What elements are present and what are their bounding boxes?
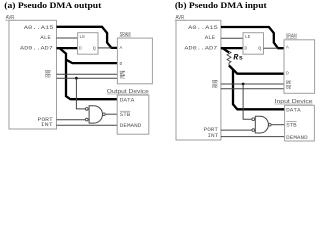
wire RD to SRAM OE (b) — [221, 88, 284, 90]
svg-text:INT: INT — [207, 132, 218, 139]
svg-text:Q: Q — [93, 45, 96, 51]
svg-text:Q: Q — [258, 45, 261, 51]
pin label STB (Input Device, overlined) — [286, 122, 297, 129]
gate U8 output bubble — [269, 123, 272, 126]
svg-text:(a) Pseudo DMA output: (a) Pseudo DMA output — [4, 1, 101, 10]
svg-text:A: A — [286, 45, 289, 51]
svg-text:ALE: ALE — [205, 34, 216, 41]
gate U8 input bubble bottom — [252, 129, 255, 132]
svg-text:DATA: DATA — [120, 97, 135, 104]
wire WR branch to gate input (b) — [243, 84, 252, 119]
junction on WR wire (b) — [242, 83, 245, 86]
svg-text:INT: INT — [41, 121, 54, 128]
pin label WR (U5, overlined) — [212, 80, 218, 86]
wire AD bus to latch D — [57, 47, 78, 49]
wire gate output to STB — [105, 113, 117, 115]
wire AD bus down to resistor (b) — [223, 48, 230, 52]
svg-text:STB: STB — [286, 122, 297, 129]
pin label RD (U5, overlined) — [212, 84, 218, 90]
gate U4 input bubble bottom — [85, 118, 88, 121]
wire A0..A15 address bus to SRAM (b) — [221, 27, 284, 48]
pin label STB (Output Device, overlined) — [120, 111, 131, 118]
MCU U5 AVR box — [175, 15, 221, 140]
svg-text:D: D — [244, 45, 247, 51]
svg-text:A: A — [120, 45, 123, 51]
svg-text:D: D — [79, 45, 82, 51]
wire data branch to SRAM D (b) — [233, 70, 284, 74]
wire RD branch to gate input — [76, 78, 85, 109]
Input Device box — [275, 99, 315, 141]
gate U4 output bubble — [103, 113, 106, 116]
wire WR to SRAM WE — [57, 73, 118, 75]
svg-text:DATA: DATA — [286, 107, 301, 114]
svg-text:ALE: ALE — [40, 34, 51, 41]
Output Device box — [107, 89, 149, 134]
svg-text:D: D — [120, 61, 123, 67]
svg-text:AD0..AD7: AD0..AD7 — [184, 44, 217, 51]
svg-text:AD0..AD7: AD0..AD7 — [20, 44, 53, 51]
latch U6 box — [243, 33, 264, 55]
SRAM U7 box — [284, 34, 315, 94]
wire A0..A15 address bus to SRAM — [57, 27, 118, 48]
wire WR to SRAM WE (b) — [221, 83, 284, 85]
wire data bus branch to SRAM D — [66, 60, 117, 64]
wire AD0..AD7 data bus — [57, 48, 118, 99]
gate U4 input bubble top — [85, 108, 88, 111]
svg-text:AVR: AVR — [176, 15, 185, 21]
wire PORT to gate input (b) — [221, 129, 252, 131]
wire gate output to STB (b) — [271, 124, 284, 126]
pin label WE (U7, overlined) — [286, 80, 291, 86]
pin label WR (U1, overlined) — [45, 70, 51, 76]
junction on RD wire — [75, 77, 78, 80]
resistor Rs — [227, 51, 243, 65]
wire PORT to gate input — [57, 119, 86, 121]
wire resistor to data line (b) — [229, 66, 285, 110]
svg-text:LE: LE — [79, 34, 85, 40]
wire AD0..AD7 bus stub (b) — [221, 47, 223, 49]
SRAM U3 box — [117, 32, 152, 84]
gate U8 input bubble top — [252, 118, 255, 121]
svg-text:s: s — [239, 55, 243, 63]
svg-text:(b) Pseudo DMA input: (b) Pseudo DMA input — [175, 1, 267, 10]
svg-text:STB: STB — [120, 111, 131, 118]
wire latch Q to address junction (b) — [264, 47, 278, 49]
svg-text:LE: LE — [245, 34, 251, 40]
pin label WE (U3, overlined) — [120, 70, 125, 76]
svg-text:DEMAND: DEMAND — [120, 122, 142, 129]
pin label OE (U3, overlined) — [120, 74, 125, 80]
latch U2 box — [78, 33, 98, 55]
svg-text:D: D — [286, 70, 289, 76]
gate U8 NAND (inverted inputs) body — [252, 116, 271, 133]
gate U4 NAND (inverted inputs) body — [85, 106, 105, 123]
svg-text:A0..A15: A0..A15 — [24, 24, 54, 31]
wire ALE to latch LE (b) — [221, 37, 243, 39]
pin label RD (U1, overlined) — [45, 74, 51, 80]
wire RD to SRAM OE — [57, 77, 118, 79]
wire INT to DEMAND (b) — [221, 136, 285, 138]
wire INT to DEMAND — [57, 124, 118, 126]
svg-text:DEMAND: DEMAND — [286, 134, 308, 141]
pin label OE (U7, overlined) — [286, 85, 291, 91]
wire AD bus to latch D (b) — [221, 47, 243, 49]
svg-text:AVR: AVR — [6, 15, 15, 21]
wire latch Q to address junction — [98, 47, 111, 49]
MCU U1 AVR box — [6, 15, 57, 129]
svg-text:A0..A15: A0..A15 — [188, 24, 218, 31]
wire ALE to latch LE — [57, 37, 78, 39]
